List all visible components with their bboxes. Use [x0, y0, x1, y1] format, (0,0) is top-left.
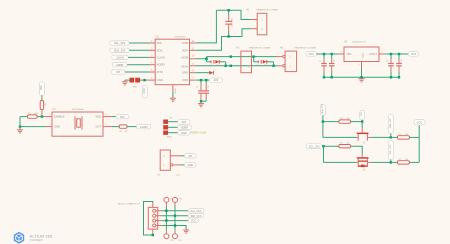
svg-text:H1: H1 — [247, 9, 251, 11]
svg-text:VCC: VCC — [191, 220, 196, 223]
wire pin10 row — [196, 57, 277, 59]
capacitor C1 — [225, 10, 233, 36]
svg-text:2: 2 — [290, 65, 292, 68]
wire CN1 row2 — [162, 215, 190, 217]
svg-text:INT: INT — [188, 155, 193, 158]
test point TP1 — [164, 197, 173, 205]
net label GND vertical at pin6 — [142, 86, 147, 98]
svg-text:H4: H4 — [158, 175, 162, 177]
svg-text:GND: GND — [188, 164, 194, 167]
junction TP1 row3 — [165, 219, 167, 221]
capacitor C5 — [197, 80, 204, 101]
svg-text:R1: R1 — [120, 131, 123, 133]
wire VOUT to 3V3 — [385, 53, 408, 55]
svg-text:INOA: INOA — [181, 64, 188, 68]
net label ADDR jumper — [178, 125, 192, 130]
junction gnd bus — [360, 76, 362, 78]
junction SCL_VCC — [390, 161, 392, 163]
wire SCL row right — [371, 161, 391, 163]
IC1 pin texts — [157, 41, 189, 82]
junction pin9 mid — [230, 65, 232, 67]
svg-text:SDA_3V3: SDA_3V3 — [321, 103, 324, 113]
test point TP4 — [173, 231, 182, 242]
wire TP1 column — [165, 205, 167, 230]
ferrite bead FB1 — [130, 78, 141, 89]
wire to R7 — [391, 161, 398, 163]
svg-text:TP4: TP4 — [178, 240, 181, 242]
IC1 pin numbers — [151, 41, 195, 80]
wire top bus H1 pin1 — [216, 10, 251, 19]
resistor R4 — [339, 118, 351, 123]
svg-text:VIN: VIN — [347, 52, 352, 56]
header H4 — [158, 150, 181, 177]
net label 3V3 regulator output — [408, 52, 418, 57]
svg-text:H3: H3 — [280, 47, 284, 49]
resistor R6 — [339, 143, 351, 148]
IC1 left pin 2 SDA — [150, 49, 156, 51]
svg-text:C6: C6 — [208, 85, 210, 88]
H4 pin1 wire — [170, 164, 172, 166]
header H3 — [277, 46, 316, 71]
junction pin10 mid — [230, 55, 232, 57]
wire CN1 row4 to ground — [162, 226, 186, 230]
wire R6 to gate Q2 — [351, 146, 363, 153]
svg-text:VDD: VDD — [182, 78, 188, 82]
wire ground bus regulator — [324, 76, 399, 78]
ground at pin6 — [122, 80, 128, 85]
svg-text:TP3: TP3 — [170, 240, 173, 242]
svg-text:ADDR: ADDR — [116, 63, 123, 67]
junction VDD C5 — [200, 79, 202, 81]
capacitor C8 — [329, 54, 336, 77]
svg-text:SCL: SCL — [157, 41, 163, 45]
svg-text:U1: U1 — [53, 108, 57, 111]
wire gnd row to oscillator — [20, 126, 46, 128]
wire SDA_VCC stem — [390, 134, 392, 138]
svg-text:ADDR: ADDR — [181, 127, 188, 130]
svg-text:IC1: IC1 — [155, 35, 160, 38]
net label SDA_VCC vertical — [388, 115, 393, 134]
svg-text:CLKIN: CLKIN — [116, 56, 124, 60]
capacitor C6 — [203, 80, 210, 101]
wire SCL down — [323, 146, 325, 162]
IC1 right pin 10 — [190, 58, 196, 60]
svg-text:10k: 10k — [347, 143, 350, 145]
net label 3V3 oscillator pullup — [39, 82, 44, 96]
svg-text:2: 2 — [261, 27, 263, 31]
wire IC1 bottom to ground — [172, 92, 174, 98]
wire SCL_VCC stem — [390, 160, 392, 163]
net label SCL_VCC vertical — [388, 141, 393, 160]
wire 3V3 to R2 — [41, 96, 43, 99]
svg-text:SGM2019-3.3: SGM2019-3.3 — [352, 41, 366, 43]
svg-text:SCL_VCC: SCL_VCC — [190, 210, 201, 213]
svg-text:10k: 10k — [347, 118, 350, 120]
ground IC1 bottom — [170, 98, 176, 101]
junction SDA tee — [322, 120, 324, 122]
H4 pin2 wire — [170, 155, 180, 157]
svg-text:VCC: VCC — [308, 52, 314, 56]
IC1 right pin 7 VDD — [190, 79, 196, 81]
svg-text:VIEWER: VIEWER — [30, 238, 43, 242]
svg-text:2: 2 — [163, 155, 165, 158]
svg-text:H2: H2 — [237, 47, 241, 49]
svg-text:GND: GND — [362, 53, 364, 58]
net label INT H4 — [185, 154, 197, 159]
header H2 — [237, 46, 271, 72]
diode D1 — [207, 59, 226, 67]
net label GND jumper — [178, 131, 190, 136]
svg-text:C9: C9 — [387, 59, 389, 62]
IC1 left pin 6 GND — [146, 79, 155, 81]
wire R1 to CLKIN — [127, 126, 137, 128]
transistor Q1 — [356, 128, 371, 145]
svg-text:10k: 10k — [405, 134, 408, 136]
CN1 shield stubs — [152, 203, 154, 207]
junction gate node Q1 — [361, 120, 363, 122]
IC1 left pin 5 INT0 — [150, 71, 156, 73]
junction pin9/D1 — [225, 65, 227, 67]
wire SDA row right — [371, 136, 391, 138]
transistor Q2 — [356, 154, 371, 172]
resistor R5 — [397, 134, 409, 139]
svg-text:2.54: 2.54 — [176, 175, 181, 177]
junction pin10/D1 — [205, 58, 208, 61]
svg-text:3V3: 3V3 — [120, 115, 125, 119]
IC1 right pin 11 — [190, 49, 196, 51]
junction pin9/D2 — [272, 65, 274, 67]
svg-text:C8: C8 — [334, 59, 336, 62]
net label SCL_3V3 — [306, 144, 322, 149]
svg-text:C7: C7 — [320, 59, 322, 62]
capacitor C10 — [396, 54, 403, 77]
svg-text:R2: R2 — [45, 102, 47, 105]
junction pin6 — [143, 79, 145, 81]
wire JP1 pad1 — [168, 121, 178, 123]
wire R5 to VCC rail — [409, 136, 419, 138]
jumper JP1 pad 3 — [163, 131, 168, 135]
junction pin10/D2 — [253, 55, 255, 57]
ground oscillator left — [17, 127, 23, 133]
net label GND H4 — [185, 163, 197, 168]
wire R4 to gate node — [351, 121, 363, 123]
svg-text:3V3: 3V3 — [411, 52, 416, 56]
svg-text:INT0: INT0 — [157, 70, 164, 74]
IC1 right pin 9 — [190, 65, 196, 67]
capacitor C9 — [387, 54, 394, 77]
op IC1 box — [155, 35, 189, 84]
svg-text:JP1: JP1 — [169, 117, 173, 119]
svg-text:2: 2 — [49, 124, 51, 126]
net label VCC level shifter — [414, 120, 425, 125]
svg-text:1: 1 — [49, 114, 51, 116]
IC1 right pin 8 — [190, 72, 196, 74]
ground regulator — [359, 79, 365, 82]
wire JP1 pad3 — [168, 132, 178, 134]
svg-text:SDA_VCC: SDA_VCC — [190, 215, 202, 218]
capacitor C7 — [320, 54, 327, 77]
svg-text:INOB: INOB — [181, 55, 188, 59]
CN1 shield loop — [144, 202, 153, 236]
svg-text:SDA_3V3: SDA_3V3 — [114, 48, 126, 52]
svg-text:1: 1 — [290, 56, 292, 59]
net label 3V3 level shifter — [360, 110, 365, 119]
svg-text:4: 4 — [105, 114, 107, 116]
wire SDA row left — [323, 136, 356, 138]
svg-text:U2: U2 — [344, 40, 348, 43]
wire JP1 pad2 — [168, 126, 178, 128]
wire TP2 column — [174, 205, 176, 230]
svg-text:OUT: OUT — [95, 125, 101, 129]
svg-text:GND: GND — [182, 71, 188, 75]
svg-text:SCL_VCC: SCL_VCC — [390, 144, 392, 155]
svg-text:TP2: TP2 — [178, 199, 181, 201]
junction C10 — [398, 53, 400, 55]
svg-text:33: 33 — [125, 131, 128, 133]
svg-text:C5: C5 — [197, 85, 199, 88]
jumper JP1 pad 2 — [163, 125, 168, 129]
IC1 bottom pin 13 — [172, 85, 174, 92]
logo altium hexagon — [14, 232, 24, 244]
svg-text:MICRO CONNECTOR: MICRO CONNECTOR — [118, 203, 140, 205]
junction bottom wire / C1 — [228, 35, 230, 37]
svg-text:GND: GND — [181, 132, 187, 135]
wire C5 C6 join — [201, 100, 206, 102]
svg-text:ADDR: ADDR — [157, 63, 165, 67]
net label 3V3 oscillator vdd — [116, 114, 129, 119]
net label 3V3 jumper — [178, 120, 190, 125]
wire H1 pin1 vertical to pin12 row — [196, 10, 217, 43]
net label SDA_VCC — [188, 213, 204, 217]
svg-text:SCL_3V3: SCL_3V3 — [309, 146, 320, 149]
svg-text:VCC: VCC — [417, 121, 423, 125]
svg-text:GND: GND — [143, 88, 146, 94]
wire left gnd branch — [19, 117, 21, 127]
IC1 left pin 4 ADDR — [150, 64, 156, 66]
svg-text:ALTIUM 365: ALTIUM 365 — [30, 234, 52, 238]
net label CLKIN oscillator — [137, 124, 151, 128]
resistor R7 — [397, 159, 409, 164]
svg-text:MCP23009: MCP23009 — [175, 36, 187, 38]
wire enable stub — [44, 116, 53, 118]
svg-text:HEADER-2P-2.54MM: HEADER-2P-2.54MM — [249, 46, 270, 49]
wire VDD pin7 to 3V3 — [196, 79, 210, 81]
wire CN1 row1 — [162, 210, 190, 212]
junction C7 — [323, 53, 325, 55]
svg-text:3: 3 — [105, 124, 107, 126]
wire 3V3 pill stem — [361, 120, 363, 122]
svg-text:2: 2 — [381, 52, 383, 54]
svg-text:ADDR = 0x20: ADDR = 0x20 — [191, 131, 207, 134]
junction C9 — [390, 53, 392, 55]
junction TP1 row1 — [165, 210, 167, 212]
IC1 right pin 12 — [190, 42, 196, 44]
wire VDD to 3V3 pill — [103, 116, 112, 118]
wire U2 gnd pin to bus — [361, 68, 363, 77]
junction TP2 row4 — [174, 224, 176, 226]
svg-text:SDA: SDA — [157, 48, 163, 52]
svg-text:GND: GND — [175, 88, 177, 93]
svg-text:10k: 10k — [405, 159, 408, 161]
svg-text:1: 1 — [163, 164, 165, 167]
net label SDA_3V3 — [110, 48, 150, 52]
oscillator U1 — [49, 108, 107, 136]
net label SDA_3V3 vertical — [320, 103, 325, 115]
net label CLKIN — [112, 55, 150, 59]
svg-text:3: 3 — [340, 52, 342, 54]
svg-text:HEADER-2P-2.54MM: HEADER-2P-2.54MM — [294, 46, 315, 49]
jumper JP1 pad 1 — [163, 120, 168, 124]
IC1 left pin 1 SCL — [150, 42, 156, 44]
wire FB1 to pin6 — [140, 79, 146, 81]
net label VCC regulator input — [306, 52, 316, 57]
svg-text:1: 1 — [261, 18, 263, 22]
test point TP3 — [164, 231, 173, 242]
wire pin9 row — [196, 65, 278, 67]
svg-text:SIT2024BA: SIT2024BA — [72, 108, 84, 111]
svg-text:1: 1 — [359, 64, 361, 66]
junction SCL tee — [322, 145, 324, 147]
wire OUT to R1 — [103, 126, 111, 128]
svg-text:INTA: INTA — [182, 48, 188, 52]
wire H1 pin2 bus — [196, 29, 251, 51]
svg-text:FB1: FB1 — [133, 86, 138, 88]
junction VDD C6 — [205, 79, 207, 81]
net label ADDR — [112, 63, 149, 67]
wire R7 to VCC rail — [409, 161, 419, 163]
svg-text:3V3: 3V3 — [214, 78, 219, 82]
junction top wire / C1 — [228, 9, 230, 11]
resistor R1 — [119, 125, 128, 133]
wire to R5 — [391, 136, 398, 138]
junction C8 — [331, 53, 333, 55]
ground CN1 — [183, 230, 189, 233]
svg-text:3V3: 3V3 — [40, 85, 43, 90]
svg-text:SMD: SMD — [167, 136, 172, 138]
regulator U2 — [339, 40, 385, 68]
connector CN1 — [118, 203, 162, 229]
wire VCC to VIN — [316, 53, 338, 55]
ground at C5 C6 — [198, 101, 204, 107]
header H1 — [247, 8, 278, 34]
svg-text:10: 10 — [192, 55, 195, 57]
junction gnd bus C7 — [323, 76, 325, 78]
svg-text:3V3: 3V3 — [182, 121, 187, 124]
wire SDA tee to R4 — [323, 121, 339, 123]
wire CN1 row3 — [162, 220, 190, 222]
resistor R3 — [20, 113, 44, 118]
svg-text:HEADER-2P-2.54MM: HEADER-2P-2.54MM — [257, 8, 278, 11]
net label SCL_VCC — [188, 209, 204, 213]
junction R2 enable — [41, 115, 43, 117]
svg-text:VDD: VDD — [95, 115, 101, 119]
wire gate Q1 — [361, 122, 363, 129]
svg-text:GND: GND — [54, 125, 60, 129]
svg-text:INTB: INTB — [182, 41, 189, 45]
diode D2 — [254, 57, 274, 68]
svg-text:GND: GND — [157, 78, 163, 82]
svg-text:100k: 100k — [34, 113, 38, 115]
svg-text:SDA_VCC: SDA_VCC — [389, 118, 392, 129]
junction shield bottom — [152, 234, 154, 236]
svg-text:INT: INT — [116, 70, 121, 74]
svg-text:CLKIN: CLKIN — [157, 55, 165, 59]
junction C5 join — [200, 100, 202, 102]
junction SDA_VCC — [390, 136, 392, 138]
IC1 left pin 3 CLKIN — [150, 56, 156, 58]
junction gnd bus C8 — [331, 76, 333, 78]
test point TP2 — [173, 197, 182, 205]
resistor R2 — [40, 98, 47, 116]
pin8 no connect arrow — [196, 71, 214, 75]
svg-text:CLKIN: CLKIN — [140, 125, 148, 129]
svg-text:VOUT: VOUT — [369, 52, 377, 56]
wire gnd to FB1 — [125, 79, 130, 81]
wire VCC rail vertical — [418, 125, 420, 162]
svg-text:C1 100n: C1 100n — [232, 18, 234, 27]
svg-text:Q1: Q1 — [363, 142, 365, 146]
svg-text:SCL_3V3: SCL_3V3 — [114, 41, 126, 45]
wire SDA_3V3 down — [322, 115, 324, 137]
wire SCL row left — [324, 161, 356, 163]
svg-text:ENABLE: ENABLE — [54, 115, 65, 119]
junction gnd bus C10 — [398, 76, 400, 78]
junction gnd bus C9 — [390, 76, 392, 78]
net label SCL_3V3 — [110, 41, 150, 45]
net label VCC CN1 — [188, 218, 198, 222]
svg-text:C10: C10 — [401, 58, 403, 63]
wire SCL row top — [322, 145, 339, 147]
net label INT — [111, 70, 149, 74]
net label 3V3 at VDD — [209, 78, 222, 82]
junction TP2 row2 — [174, 215, 176, 217]
junction gnd branch — [19, 125, 21, 127]
svg-text:Q2: Q2 — [363, 169, 365, 173]
